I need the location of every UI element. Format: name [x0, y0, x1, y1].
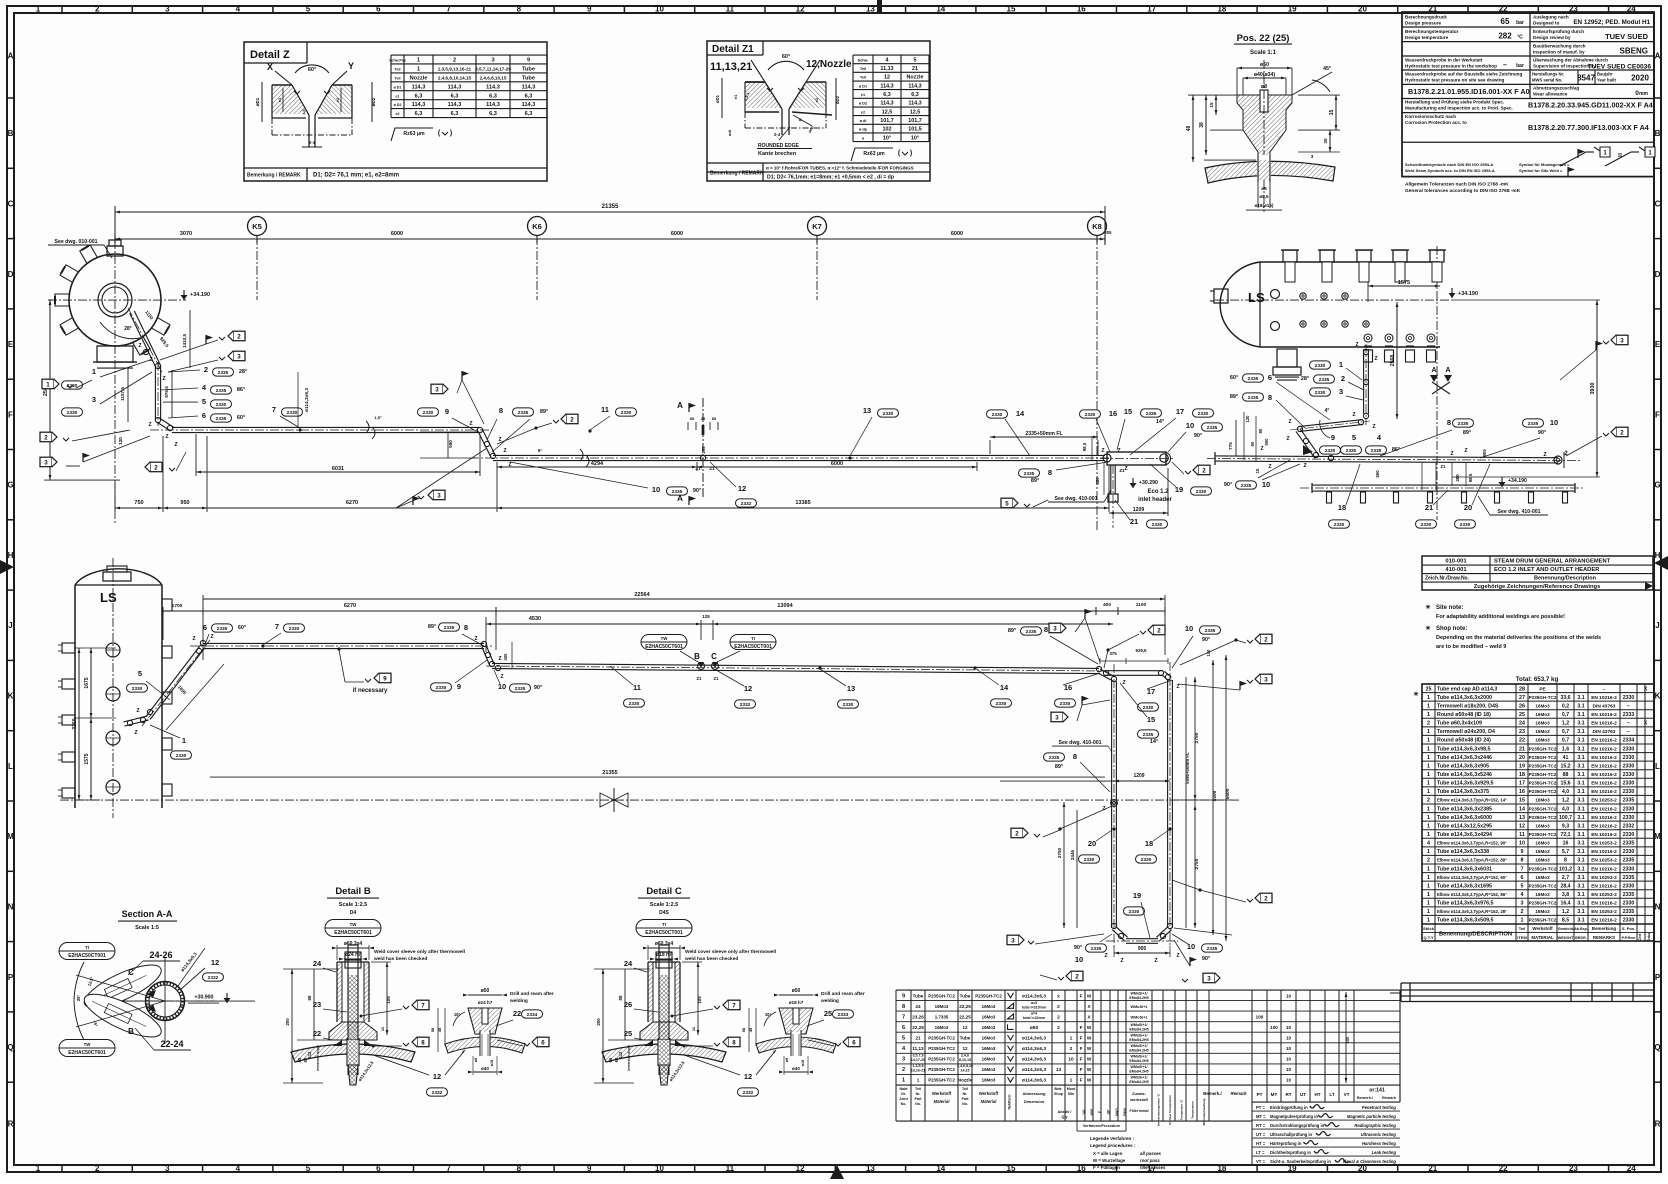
svg-text:0,7: 0,7: [1562, 729, 1569, 735]
svg-text:2750: 2750: [1194, 858, 1200, 869]
svg-text:e2: e2: [814, 97, 819, 102]
svg-text:WMoSi+1/: WMoSi+1/: [1130, 1034, 1147, 1038]
svg-text:12: 12: [211, 958, 219, 967]
svg-text:30: 30: [1323, 138, 1328, 144]
svg-text:2335: 2335: [1205, 628, 1216, 634]
svg-text:MT: MT: [1271, 1092, 1278, 1097]
svg-text:86°: 86°: [237, 387, 245, 393]
svg-text:A: A: [677, 494, 683, 503]
svg-text:3.1: 3.1: [1577, 883, 1584, 889]
svg-text:6270: 6270: [344, 603, 356, 609]
svg-text:400: 400: [503, 653, 508, 661]
svg-text:E2HAC50CT001: E2HAC50CT001: [645, 930, 683, 936]
svg-text:Tube ø114,3x6,3x2385: Tube ø114,3x6,3x2385: [1437, 806, 1492, 812]
svg-text:EMo84.2H5: EMo84.2H5: [1129, 1027, 1148, 1031]
svg-text:F: F: [1080, 993, 1083, 998]
svg-text:141: 141: [1082, 1109, 1086, 1115]
svg-text:D: D: [8, 270, 14, 279]
svg-text:C: C: [8, 199, 14, 208]
svg-text:–: –: [1627, 729, 1630, 735]
svg-text:EN 10253-2: EN 10253-2: [1591, 858, 1617, 864]
svg-text:Z: Z: [1260, 446, 1263, 452]
svg-text:ø114,3x6,3: ø114,3x6,3: [1022, 1036, 1046, 1042]
svg-text:ø40: ø40: [792, 1066, 800, 1071]
svg-text:2332: 2332: [208, 975, 219, 981]
svg-text:98,5: 98,5: [1082, 442, 1087, 451]
svg-text:15: 15: [1124, 407, 1132, 416]
svg-text:X: X: [1644, 686, 1648, 692]
svg-text:114,3: 114,3: [908, 101, 921, 107]
svg-text:Tube ø114,3x6,3x6000: Tube ø114,3x6,3x6000: [1437, 815, 1492, 821]
svg-text:1100: 1100: [1136, 602, 1147, 608]
svg-text:65: 65: [1501, 17, 1510, 26]
svg-text:Z: Z: [1268, 464, 1271, 470]
svg-text:P235GH-TC2: P235GH-TC2: [1529, 806, 1557, 811]
svg-text:3: 3: [1339, 387, 1343, 396]
svg-text:14: 14: [1000, 683, 1009, 692]
svg-text:weld has been checked: weld has been checked: [373, 956, 427, 962]
svg-text:W: W: [1087, 1025, 1092, 1030]
svg-text:500: 500: [1264, 438, 1269, 446]
svg-text:0,2: 0,2: [1562, 703, 1569, 709]
svg-text:ø di: ø di: [860, 119, 867, 123]
svg-text:Tube ø114,3x6,3x5246: Tube ø114,3x6,3x5246: [1437, 772, 1492, 778]
svg-text:K7: K7: [812, 222, 822, 231]
svg-text:1: 1: [1427, 815, 1430, 821]
svg-text:13,16-21: 13,16-21: [911, 1069, 925, 1073]
svg-text:Penetrant testing: Penetrant testing: [1362, 1105, 1397, 1110]
svg-text:Z: Z: [1124, 466, 1127, 472]
svg-text:F: F: [1080, 1067, 1083, 1072]
svg-text:16Mo3: 16Mo3: [982, 1014, 996, 1019]
svg-text:ø40: ø40: [481, 1066, 489, 1071]
svg-text:16Mo3: 16Mo3: [1535, 849, 1550, 854]
svg-text:total l=315mm: total l=315mm: [1022, 1005, 1046, 1009]
svg-text:Baujahr: Baujahr: [1597, 72, 1613, 77]
svg-text:filler passes: filler passes: [1140, 1165, 1166, 1170]
svg-text:Zert: Zert: [1638, 933, 1642, 940]
svg-text:Z: Z: [1176, 953, 1179, 959]
svg-text:P235GH-TC2: P235GH-TC2: [1529, 772, 1557, 777]
svg-text:90°: 90°: [693, 488, 701, 494]
svg-text:10: 10: [655, 5, 664, 14]
svg-text:2330: 2330: [1129, 909, 1140, 915]
svg-text:Nozzle: Nozzle: [410, 76, 428, 82]
svg-text:MAG: MAG: [1115, 1108, 1119, 1116]
svg-text:950: 950: [180, 500, 189, 506]
svg-text:Inspection of manuf. by: Inspection of manuf. by: [1533, 50, 1585, 55]
svg-text:Scale 1:2.5: Scale 1:2.5: [339, 902, 367, 908]
svg-text:A: A: [1431, 367, 1436, 374]
svg-text:Detail Z: Detail Z: [250, 49, 290, 61]
svg-text:P235GH-TC2: P235GH-TC2: [975, 993, 1002, 998]
svg-text:Nr.: Nr.: [916, 1092, 921, 1096]
svg-text:8: 8: [1447, 418, 1451, 427]
svg-text:J: J: [1655, 621, 1659, 630]
svg-text:Scale 1:5: Scale 1:5: [135, 925, 159, 931]
svg-text:✳: ✳: [1413, 691, 1418, 698]
svg-text:2330: 2330: [423, 410, 434, 416]
svg-text:8: 8: [1521, 858, 1524, 864]
svg-text:1: 1: [1427, 892, 1430, 898]
svg-text:1410,5: 1410,5: [182, 334, 187, 348]
svg-text:2335: 2335: [515, 686, 526, 692]
svg-text:Preheat Temperature: Preheat Temperature: [1168, 1095, 1172, 1125]
svg-text:6031: 6031: [332, 466, 344, 472]
svg-text:11,13: 11,13: [880, 66, 893, 72]
svg-text:EN 10253-2: EN 10253-2: [1591, 798, 1617, 804]
svg-text:WMoSi+1: WMoSi+1: [1131, 1015, 1148, 1019]
svg-text:114,3: 114,3: [486, 84, 500, 90]
svg-text:10: 10: [498, 682, 506, 691]
svg-text:14: 14: [936, 5, 945, 14]
svg-text:ø D1: ø D1: [859, 84, 867, 88]
svg-text:2335: 2335: [216, 388, 227, 394]
svg-text:Depending on the material deli: Depending on the material deliveries the…: [1436, 635, 1601, 641]
svg-text:10: 10: [1068, 1057, 1074, 1063]
svg-text:Z: Z: [1176, 684, 1179, 690]
svg-text:23: 23: [1519, 729, 1525, 735]
svg-text:LS: LS: [1248, 290, 1265, 305]
svg-text:Part: Part: [915, 1097, 923, 1101]
svg-text:13: 13: [866, 5, 875, 14]
svg-text:1575: 1575: [1398, 280, 1410, 286]
svg-text:ø60,3x4: ø60,3x4: [655, 941, 674, 947]
svg-text:L: L: [8, 762, 13, 771]
svg-text:28°: 28°: [1301, 376, 1309, 382]
svg-text:13: 13: [863, 406, 871, 415]
svg-text:6,3: 6,3: [489, 111, 497, 117]
svg-text:2330: 2330: [1623, 866, 1635, 872]
svg-text:21: 21: [1130, 517, 1138, 526]
svg-text:Joint: Joint: [899, 1097, 908, 1101]
svg-text:27: 27: [1519, 695, 1525, 701]
svg-text:24: 24: [915, 1004, 921, 1009]
svg-text:1209: 1209: [1133, 773, 1144, 779]
svg-text:6: 6: [541, 1039, 545, 1046]
svg-text:1157,5: 1157,5: [120, 387, 125, 401]
svg-text:100: 100: [1270, 1025, 1278, 1030]
svg-text:1: 1: [1521, 918, 1524, 924]
svg-text:2335: 2335: [1024, 471, 1035, 477]
svg-text:1: 1: [182, 736, 186, 745]
svg-text:°C: °C: [1517, 35, 1523, 41]
svg-text:2335: 2335: [444, 625, 455, 631]
svg-text:21: 21: [912, 66, 918, 72]
svg-text:200: 200: [596, 1018, 601, 1026]
svg-text:MWS serial No.: MWS serial No.: [1532, 78, 1562, 83]
svg-text:2330: 2330: [1315, 390, 1326, 396]
svg-text:Shop: Shop: [1054, 1092, 1064, 1096]
svg-text:18: 18: [1338, 503, 1346, 512]
svg-text:9: 9: [383, 675, 387, 682]
svg-text:2: 2: [1427, 858, 1430, 864]
svg-text:1575: 1575: [84, 753, 90, 764]
svg-text:ø24 h7: ø24 h7: [478, 1000, 493, 1005]
svg-text:101,7: 101,7: [908, 118, 922, 124]
svg-text:F: F: [1080, 1025, 1083, 1030]
svg-text:16Mo3: 16Mo3: [982, 1057, 996, 1062]
svg-text:22,25: 22,25: [959, 1004, 971, 1009]
svg-text:WMoSi+1/: WMoSi+1/: [1130, 1065, 1147, 1069]
svg-text:K: K: [8, 692, 14, 701]
svg-text:8: 8: [1048, 468, 1052, 477]
svg-text:3.1: 3.1: [1577, 763, 1584, 769]
svg-text:Nozzle: Nozzle: [958, 1078, 973, 1083]
svg-text:Zusatz-: Zusatz-: [1132, 1091, 1147, 1096]
svg-text:1700: 1700: [172, 603, 183, 609]
svg-text:5°: 5°: [538, 448, 543, 453]
svg-text:12: 12: [744, 1072, 752, 1081]
svg-text:e2: e2: [396, 112, 400, 116]
svg-text:Termowell ø18x200, D4S: Termowell ø18x200, D4S: [1437, 703, 1499, 709]
svg-text:16Mo3: 16Mo3: [1535, 875, 1550, 880]
svg-text:Part: Part: [962, 1097, 970, 1101]
svg-text:1,6: 1,6: [1562, 746, 1569, 752]
svg-text:Z: Z: [136, 708, 139, 714]
svg-text:2330: 2330: [176, 753, 187, 759]
svg-text:LS: LS: [100, 590, 117, 605]
svg-text:38: 38: [1199, 122, 1205, 128]
svg-text:101,7: 101,7: [880, 118, 894, 124]
svg-text:EN 10216-2: EN 10216-2: [1591, 789, 1617, 795]
svg-text:bar: bar: [1516, 20, 1524, 26]
svg-text:B: B: [8, 129, 14, 138]
svg-text:10: 10: [1262, 480, 1270, 489]
svg-text:8: 8: [902, 1004, 905, 1010]
svg-text:5: 5: [1352, 433, 1356, 442]
svg-text:Anzahl /: Anzahl /: [1058, 1110, 1072, 1114]
svg-text:2330: 2330: [1084, 857, 1095, 863]
svg-text:22564: 22564: [634, 592, 650, 598]
svg-text:10: 10: [655, 1164, 664, 1173]
svg-text:See dwg. 010-001: See dwg. 010-001: [55, 239, 98, 245]
svg-text:2330: 2330: [1623, 695, 1635, 701]
svg-text:bar: bar: [1516, 63, 1524, 69]
svg-text:e2: e2: [861, 110, 865, 114]
svg-text:16Mo3: 16Mo3: [1535, 721, 1550, 726]
svg-text:K: K: [1655, 692, 1661, 701]
svg-text:9: 9: [1521, 849, 1524, 855]
svg-text:2330: 2330: [1460, 522, 1471, 528]
svg-text:125: 125: [702, 614, 710, 619]
svg-text:P235GH-TC2: P235GH-TC2: [1529, 781, 1557, 786]
svg-text:100: 100: [1256, 1014, 1264, 1019]
svg-text:114,3: 114,3: [880, 101, 893, 107]
svg-text:P235GH-TC2: P235GH-TC2: [1529, 918, 1557, 923]
svg-text:19: 19: [1519, 763, 1525, 769]
svg-text:EMo84.2H5: EMo84.2H5: [1129, 1080, 1148, 1084]
svg-text:See dwg. 410-001: See dwg. 410-001: [1498, 509, 1541, 515]
svg-text:WMoSi+1/: WMoSi+1/: [1130, 1076, 1147, 1080]
svg-text:2: 2: [1620, 429, 1624, 436]
svg-text:P235GH-TC2: P235GH-TC2: [928, 1036, 955, 1041]
svg-text:Scale 1:2.5: Scale 1:2.5: [650, 902, 678, 908]
svg-text:+34.190: +34.190: [1508, 478, 1527, 484]
svg-text:Werkstoff: Werkstoff: [1532, 926, 1553, 931]
svg-text:Bauüberwachung durch: Bauüberwachung durch: [1533, 44, 1586, 49]
svg-text:Q: Q: [7, 1043, 13, 1052]
svg-text:Tube ø114,3x6,3x6031: Tube ø114,3x6,3x6031: [1437, 866, 1492, 872]
svg-text:6000: 6000: [671, 231, 683, 237]
svg-text:15: 15: [1519, 798, 1525, 804]
svg-text:7: 7: [446, 5, 451, 14]
svg-text:–: –: [1503, 62, 1507, 69]
svg-text:α = 10° f.Rohre/FOR TUBES, α =: α = 10° f.Rohre/FOR TUBES, α =12° f. Sch…: [766, 166, 914, 171]
svg-text:root pass: root pass: [1140, 1158, 1160, 1163]
svg-text:1: 1: [1427, 703, 1430, 709]
svg-text:Eindringprüfung in: Eindringprüfung in: [1270, 1105, 1308, 1110]
svg-text:Tube ø114,3x6,3x338: Tube ø114,3x6,3x338: [1437, 849, 1489, 855]
svg-text:21: 21: [1425, 503, 1433, 512]
svg-text:Legende Verfahren :: Legende Verfahren :: [1090, 1136, 1135, 1141]
svg-text:P: P: [1655, 973, 1661, 982]
svg-text:10: 10: [1187, 942, 1195, 951]
svg-text:295: 295: [701, 446, 706, 454]
svg-text:3: 3: [491, 58, 494, 64]
svg-text:ø114,3x6,3: ø114,3x6,3: [1022, 1046, 1046, 1052]
svg-text:5: 5: [306, 1164, 311, 1173]
svg-text:Nozzle: Nozzle: [906, 75, 923, 81]
svg-text:5: 5: [1521, 883, 1524, 889]
svg-text:8: 8: [732, 1039, 736, 1046]
svg-text:102: 102: [883, 127, 892, 133]
svg-text:114,3: 114,3: [522, 102, 536, 108]
svg-text:3: 3: [165, 5, 170, 14]
svg-text:8: 8: [1044, 625, 1048, 634]
svg-text:28°: 28°: [124, 326, 132, 332]
svg-text:9,3: 9,3: [1562, 823, 1569, 829]
svg-text:E2HAC50CT601: E2HAC50CT601: [68, 1050, 106, 1056]
svg-text:Z: Z: [134, 730, 137, 736]
svg-text:M: M: [1654, 832, 1661, 841]
svg-text:101,2: 101,2: [1559, 866, 1572, 872]
svg-text:Design pressure: Design pressure: [1405, 21, 1441, 26]
svg-text:2330: 2330: [629, 701, 640, 707]
svg-text:HT: HT: [1314, 1092, 1320, 1097]
svg-text:3.1: 3.1: [1577, 841, 1584, 847]
svg-text:12,5: 12,5: [882, 109, 893, 115]
svg-text:ø114,3x6,3: ø114,3x6,3: [304, 388, 310, 412]
svg-text:100,7: 100,7: [1559, 815, 1572, 821]
svg-text:N: N: [8, 902, 14, 911]
svg-text:Tube ø114,3x6,3x2446: Tube ø114,3x6,3x2446: [1437, 755, 1492, 761]
svg-text:48: 48: [1186, 126, 1192, 132]
svg-text:Legend procedures :: Legend procedures :: [1090, 1143, 1136, 1148]
svg-text:E2HAC50CT601: E2HAC50CT601: [645, 644, 683, 650]
svg-text:TW: TW: [661, 636, 669, 641]
svg-text:D4: D4: [350, 910, 357, 916]
svg-text:TW: TW: [350, 922, 358, 927]
svg-text:9: 9: [445, 407, 449, 416]
svg-text:Benennung/DESCRIPTION: Benennung/DESCRIPTION: [1439, 932, 1512, 938]
svg-text:EN 10216-2: EN 10216-2: [1591, 918, 1617, 924]
svg-text:Shop note:: Shop note:: [1436, 626, 1467, 632]
svg-text:2334: 2334: [1623, 738, 1635, 744]
svg-text:EN 10216-2: EN 10216-2: [1591, 746, 1617, 752]
svg-text:2,4,6,8,10: 2,4,6,8,10: [957, 1064, 973, 1068]
svg-text:K6: K6: [532, 222, 542, 231]
svg-text:Designed to: Designed to: [1533, 21, 1559, 26]
svg-text:Scale 1:1: Scale 1:1: [1250, 50, 1277, 56]
svg-text:28,4: 28,4: [1560, 883, 1570, 889]
svg-text:12: 12: [744, 684, 752, 693]
svg-text:Z: Z: [1352, 412, 1355, 418]
svg-text:E: E: [1655, 340, 1661, 349]
svg-text:2330: 2330: [1315, 363, 1326, 369]
svg-text:10: 10: [1286, 1036, 1292, 1041]
svg-text:3.1: 3.1: [1577, 712, 1584, 718]
svg-text:Wasserdruckprobe auf der Baust: Wasserdruckprobe auf der Baustelle siehe…: [1405, 72, 1522, 77]
svg-text:✳: ✳: [1425, 604, 1430, 611]
svg-text:H: H: [8, 551, 14, 560]
svg-text:DIN 43763: DIN 43763: [1593, 729, 1616, 735]
svg-text:16Mo3: 16Mo3: [1535, 841, 1550, 846]
svg-text:4: 4: [236, 5, 241, 14]
svg-text:Weld cover sleeve only after t: Weld cover sleeve only after thermowell: [374, 949, 465, 955]
svg-text:P235GH-TC2: P235GH-TC2: [928, 1067, 955, 1072]
svg-text:2: 2: [1264, 895, 1268, 902]
svg-text:5: 5: [1005, 500, 1009, 507]
svg-text:58: 58: [430, 1027, 435, 1032]
svg-text:Überwachung der Abnahme durch: Überwachung der Abnahme durch: [1533, 57, 1608, 63]
svg-text:Bemerkung: Bemerkung: [1592, 926, 1616, 931]
svg-text:2335: 2335: [218, 370, 229, 376]
svg-text:2330: 2330: [216, 402, 227, 408]
svg-text:Z: Z: [138, 343, 141, 349]
svg-text:Werkstoff: Werkstoff: [932, 1091, 952, 1096]
svg-text:16Mo3: 16Mo3: [1535, 823, 1550, 828]
svg-text:60°: 60°: [1230, 375, 1238, 381]
svg-text:WIG: WIG: [1090, 1108, 1094, 1115]
svg-text:LT: LT: [1329, 1092, 1334, 1097]
svg-text:14,15: 14,15: [961, 1069, 970, 1073]
svg-text:3.1: 3.1: [1577, 901, 1584, 907]
svg-text:1: 1: [1427, 823, 1430, 829]
svg-text:2,7: 2,7: [1562, 875, 1569, 881]
svg-text:3: 3: [1620, 337, 1624, 344]
svg-text:F: F: [8, 410, 13, 419]
svg-text:2335: 2335: [1319, 377, 1330, 383]
svg-text:9: 9: [457, 682, 461, 691]
svg-text:19: 19: [1175, 485, 1183, 494]
svg-text:5,7: 5,7: [1562, 849, 1569, 855]
svg-text:G: G: [1654, 481, 1660, 490]
svg-text:550: 550: [1375, 470, 1380, 478]
svg-text:10: 10: [1286, 1046, 1292, 1051]
svg-text:12,Nozzle: 12,Nozzle: [806, 59, 852, 70]
svg-text:–: –: [1603, 687, 1606, 692]
svg-text:5: 5: [202, 397, 206, 406]
svg-text:2-4: 2-4: [309, 140, 316, 145]
svg-text:2335+50mm FL: 2335+50mm FL: [1025, 431, 1063, 437]
svg-text:3.1: 3.1: [1577, 798, 1584, 804]
svg-text:a=3: a=3: [1031, 1001, 1037, 1005]
svg-text:11,13: 11,13: [912, 1046, 924, 1051]
svg-text:Zugehörige Zeichnungen/Referen: Zugehörige Zeichnungen/Reference Drawing…: [1474, 584, 1601, 590]
svg-text:1: 1: [1427, 875, 1430, 881]
svg-text:L: L: [1655, 762, 1660, 771]
svg-text:K8: K8: [1092, 222, 1102, 231]
svg-text:2330: 2330: [843, 702, 854, 708]
svg-text:2: 2: [1341, 374, 1345, 383]
svg-text:EMo84.2H5: EMo84.2H5: [1129, 1070, 1148, 1074]
svg-text:3930: 3930: [1590, 382, 1596, 394]
svg-text:400: 400: [1103, 602, 1111, 608]
svg-text:ø114,3x6,3: ø114,3x6,3: [1022, 993, 1046, 999]
svg-text:2330: 2330: [1623, 789, 1635, 795]
svg-text:G: G: [7, 481, 13, 490]
